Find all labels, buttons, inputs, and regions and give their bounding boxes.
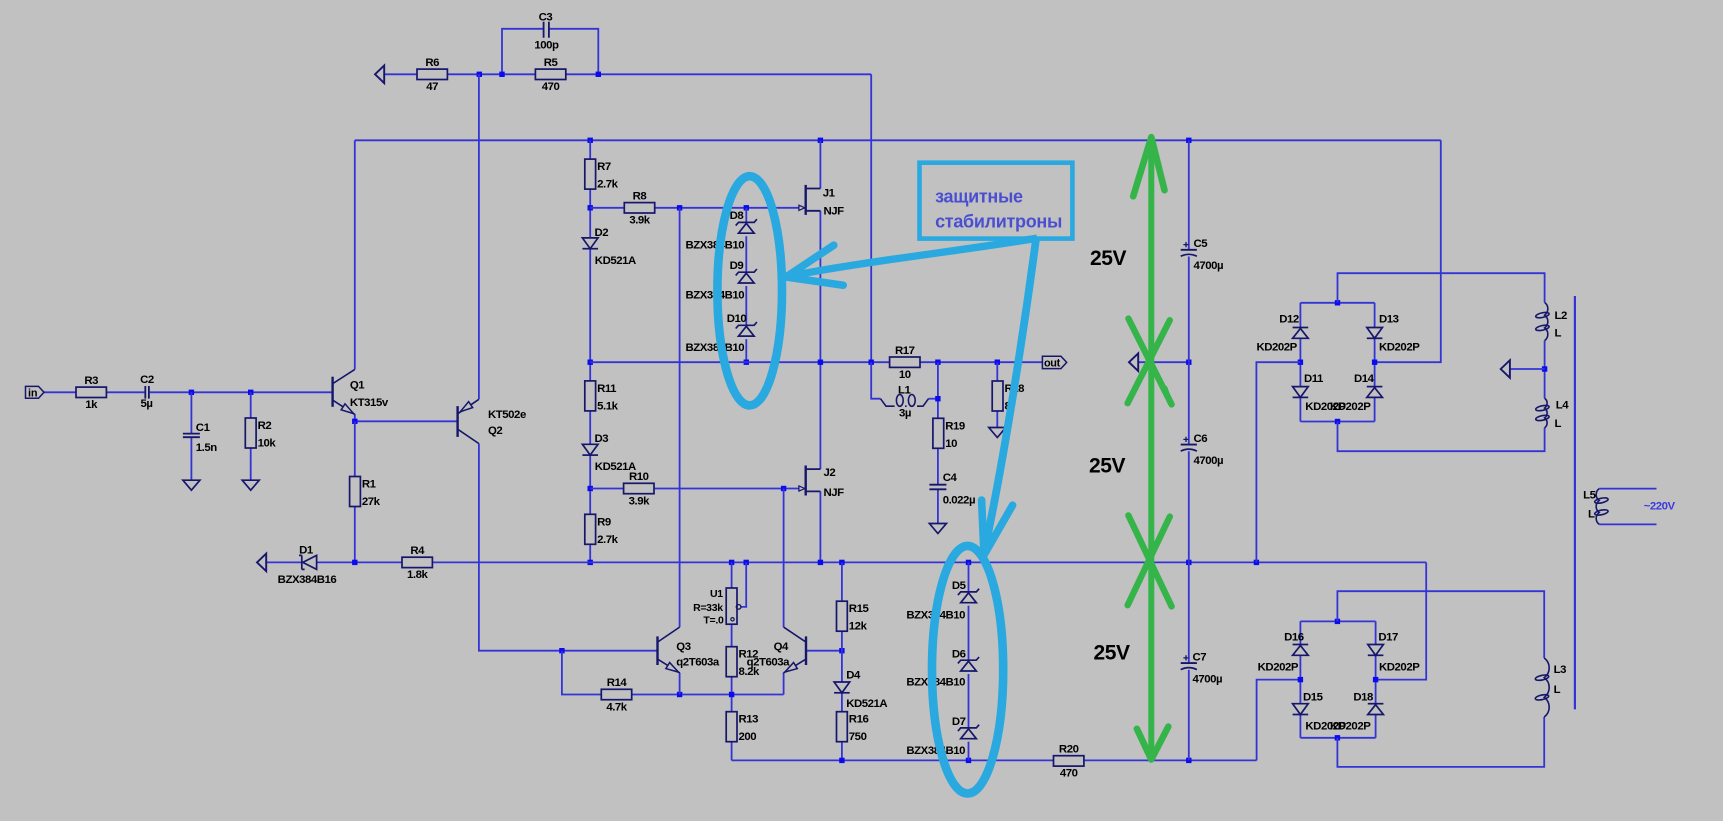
wire R13 column: [731, 695, 733, 712]
svg-text:5.1k: 5.1k: [597, 400, 618, 412]
resistor R3: [76, 375, 106, 411]
junction emitter rail R12: [729, 692, 734, 697]
junction bridge1 bottom: [1335, 419, 1340, 424]
wire bridge2 bottom: [1300, 737, 1375, 739]
svg-text:R9: R9: [597, 516, 611, 528]
wire U1 wiper: [741, 562, 746, 607]
junction bottom rail C7: [1186, 758, 1191, 763]
junction D10 bottom out rail: [744, 360, 749, 365]
junction Q4 base R15: [839, 648, 844, 653]
wire Q3 collector column: [679, 208, 681, 627]
transistor Q1 KT315v: [333, 369, 389, 414]
wire R7 column top: [589, 140, 591, 159]
wire bridge2 top to L3: [1337, 591, 1544, 658]
zener D7 BZX384B10: [906, 716, 979, 757]
svg-text:470: 470: [1060, 768, 1078, 780]
wire bottom rail: [732, 759, 1054, 761]
svg-text:1.8k: 1.8k: [407, 569, 428, 581]
svg-text:1k: 1k: [85, 399, 98, 411]
diode D16 KD202P: [1258, 632, 1309, 674]
cyan ellipse around D5-D7: [932, 546, 1003, 794]
resistor R14: [601, 677, 631, 713]
junction R7/R8/D2 node: [588, 205, 593, 210]
svg-text:KD202P: KD202P: [1379, 342, 1420, 354]
diode D15 KD202P: [1293, 692, 1347, 733]
svg-text:R3: R3: [84, 375, 98, 387]
wire D1 to R4: [317, 561, 402, 563]
resistor R10: [624, 471, 654, 507]
capacitor C1: [183, 422, 217, 454]
svg-text:in: in: [28, 388, 37, 400]
zener D8 BZX384B10: [686, 210, 757, 251]
zener D6 BZX384B10: [906, 648, 979, 688]
svg-text:R4: R4: [410, 545, 425, 557]
junction mid rail D5: [966, 560, 971, 565]
junction C3 left: [499, 72, 504, 77]
wire L2 bottom to center tap: [1544, 341, 1546, 399]
svg-text:R15: R15: [849, 603, 870, 615]
svg-text:D5: D5: [952, 580, 967, 592]
wire R16 to bottom rail: [841, 742, 843, 760]
wire R3 to C2: [106, 391, 144, 393]
junction bottom rail D7: [966, 758, 971, 763]
junction C1 node: [189, 390, 194, 395]
wire bridge1 right branch: [1374, 303, 1376, 328]
svg-text:R11: R11: [597, 383, 617, 395]
svg-text:R1: R1: [362, 479, 377, 491]
svg-text:C6: C6: [1194, 433, 1208, 445]
port in: [26, 386, 45, 399]
JFET J2 NJF: [799, 466, 844, 499]
ground C4: [929, 524, 946, 534]
svg-text:R16: R16: [849, 714, 869, 726]
junction Q1 emitter: [352, 419, 357, 424]
junction R2 node: [248, 390, 253, 395]
svg-text:L: L: [1554, 684, 1561, 696]
wire R8 net to J1 gate: [590, 207, 624, 209]
svg-text:R17: R17: [895, 345, 915, 357]
wire tap arrow stub: [1510, 368, 1545, 370]
wire R19 column: [937, 362, 939, 418]
wire out rail right of port: [1138, 361, 1189, 363]
wire R5 to output column: [566, 73, 871, 75]
junction out rail J1 source: [818, 360, 823, 365]
svg-text:C4: C4: [943, 472, 958, 484]
junction mid rail C6/C7: [1186, 560, 1191, 565]
svg-text:C2: C2: [140, 374, 154, 386]
wire C6 to mid rail: [1188, 451, 1190, 562]
ground R2: [242, 480, 259, 490]
diode D18 KD202P: [1330, 692, 1383, 733]
svg-text:10k: 10k: [258, 438, 277, 450]
svg-text:D11: D11: [1304, 373, 1324, 385]
cyan arrow to lower zeners: [982, 239, 1036, 555]
svg-text:L: L: [1555, 418, 1562, 430]
wire mid rail right end to bridge2: [1376, 562, 1427, 679]
wire emitter rail: [632, 694, 784, 696]
wire Q4 emitter drop: [783, 673, 785, 695]
svg-text:Q4: Q4: [774, 641, 789, 653]
svg-text:L4: L4: [1556, 400, 1570, 412]
svg-text:200: 200: [739, 731, 757, 743]
svg-text:KD202P: KD202P: [1258, 662, 1299, 674]
resistor R2: [245, 418, 276, 450]
ground R18: [989, 428, 1006, 438]
svg-text:D6: D6: [952, 648, 966, 660]
wire J1 drain vertical: [819, 140, 821, 188]
wire R11 to D3: [589, 411, 591, 444]
capacitor C4: [929, 472, 975, 507]
svg-text:D12: D12: [1279, 313, 1299, 325]
net marker arrow transformer tap: [1501, 360, 1510, 378]
diode D13 KD202P: [1367, 313, 1420, 353]
svg-text:L3: L3: [1554, 664, 1567, 676]
wire bridge2 bottom to L3 return: [1337, 717, 1544, 767]
svg-text:10: 10: [945, 438, 957, 450]
wire zener column D5-D7: [968, 562, 970, 592]
svg-text:D8: D8: [730, 210, 744, 222]
svg-text:750: 750: [849, 731, 867, 743]
svg-text:out: out: [1044, 358, 1061, 370]
wire out rail to R11: [589, 362, 591, 381]
svg-text:D16: D16: [1284, 632, 1304, 644]
capacitor C2: [140, 374, 154, 410]
wire Q2 collector to Q3 base: [479, 444, 658, 651]
junction out rail feedback/R17: [869, 360, 874, 365]
wire L1 left drop: [871, 362, 880, 399]
wire Q1 emitter to Q2 base: [354, 414, 356, 421]
wire C3 branch: [502, 29, 544, 75]
wire D4 to R16: [841, 693, 843, 712]
svg-text:C3: C3: [539, 12, 553, 24]
wire J1 source / J2 drain vertical: [819, 211, 821, 469]
resistor R20: [1054, 744, 1084, 780]
wire U1 to R12: [731, 624, 733, 647]
junction top rail J1 drain: [818, 138, 823, 143]
junction R8/Q3-collector column: [677, 205, 682, 210]
junction mid rail R15: [839, 560, 844, 565]
svg-text:R2: R2: [258, 420, 272, 432]
wire D2 to out rail: [589, 249, 591, 363]
junction top rail C5: [1186, 138, 1191, 143]
junction R18 top: [995, 360, 1000, 365]
wire C column C5 top: [1188, 140, 1190, 250]
wire bridge1 top to L2: [1338, 273, 1545, 303]
svg-text:R6: R6: [425, 57, 439, 69]
capacitor C5 4700u: [1181, 238, 1223, 272]
wire C4 to ground: [937, 490, 939, 524]
wire bridge1 left branch: [1299, 303, 1301, 328]
wire bottom rail to bridge2 left: [1257, 680, 1301, 761]
wire out rail: [590, 361, 1042, 363]
wire bridge1 left mid to mid rail: [1256, 362, 1300, 562]
wire bridge1 top: [1300, 302, 1374, 304]
svg-text:KT502e: KT502e: [488, 409, 526, 421]
inductor L5 primary: [1583, 489, 1608, 525]
transistor Q3 q2T603a: [658, 627, 720, 673]
svg-text:~220V: ~220V: [1644, 501, 1676, 513]
junction bridge2 top: [1335, 619, 1340, 624]
wire L5 primary bottom lead: [1599, 523, 1656, 525]
wire R19 to C4: [937, 448, 939, 484]
wire C1 stub: [190, 392, 192, 433]
wire R10 net to J2 gate: [590, 488, 624, 490]
svg-text:C1: C1: [196, 422, 211, 434]
svg-text:BZX384B10: BZX384B10: [686, 239, 745, 251]
resistor R19: [933, 418, 965, 450]
svg-text:27k: 27k: [362, 496, 381, 508]
svg-text:4700µ: 4700µ: [1194, 455, 1224, 467]
wire U1 top stub: [731, 562, 733, 588]
resistor R4: [402, 545, 432, 581]
green X mark upper: [1128, 319, 1172, 405]
wire mid rail to C7: [1188, 562, 1190, 663]
resistor R15: [837, 601, 870, 633]
svg-text:D17: D17: [1378, 632, 1398, 644]
svg-text:Q1: Q1: [350, 379, 365, 391]
svg-text:D15: D15: [1303, 692, 1324, 704]
transformer core line: [1574, 296, 1576, 709]
net marker arrow on out rail: [1129, 353, 1138, 371]
potentiometer U1: [693, 588, 741, 626]
zener D5 BZX384B10: [906, 580, 979, 621]
svg-text:D18: D18: [1353, 692, 1373, 704]
svg-text:R13: R13: [739, 714, 759, 726]
svg-text:D9: D9: [730, 260, 744, 272]
svg-text:D2: D2: [595, 227, 609, 239]
svg-text:25V: 25V: [1090, 247, 1127, 270]
net marker arrow left (feedback): [375, 66, 384, 84]
svg-text:U1: U1: [710, 588, 723, 600]
svg-text:4700µ: 4700µ: [1194, 260, 1224, 272]
svg-text:470: 470: [542, 81, 560, 93]
wire Q1 collector to top rail: [354, 140, 356, 369]
svg-text:KT315v: KT315v: [350, 397, 389, 409]
svg-text:R14: R14: [607, 677, 628, 689]
capacitor C6 4700u: [1181, 433, 1223, 467]
svg-text:C5: C5: [1194, 238, 1209, 250]
wire feedback net top: [384, 73, 417, 75]
wire D3 to R10 node: [589, 455, 591, 514]
svg-text:10: 10: [899, 369, 911, 381]
svg-text:KD521A: KD521A: [595, 255, 636, 267]
diode D11 KD202P: [1293, 373, 1347, 413]
svg-text:12k: 12k: [849, 621, 868, 633]
junction mid rail J2 source: [818, 560, 823, 565]
inductor L3: [1535, 658, 1566, 717]
wire R12 to emitter rail: [731, 677, 733, 694]
wire R9 bottom to mid rail: [589, 544, 591, 562]
resistor R8: [624, 190, 654, 226]
junction mid rail bridge1 return: [1254, 560, 1259, 565]
wire Q2 emitter to feedback node: [478, 74, 480, 399]
wire input port to R3: [44, 391, 76, 393]
wire right end of top rail down to bridge1: [1375, 140, 1441, 362]
svg-text:25V: 25V: [1094, 642, 1131, 665]
inductor L1: [881, 384, 929, 419]
wire R2 stub: [250, 392, 252, 418]
junction mid rail wiper: [744, 560, 749, 565]
wire top supply rail: [355, 139, 1441, 141]
wire C2 to Q1 base: [150, 391, 333, 393]
wire R15 column top: [841, 562, 843, 601]
diode D14 KD202P: [1330, 373, 1382, 413]
junction R10/J2 gate/Q4 collector: [781, 486, 786, 491]
junction out rail C5/C6: [1186, 360, 1191, 365]
diode D4 KD521A: [834, 670, 887, 711]
svg-text:100p: 100p: [534, 40, 559, 52]
svg-text:Q3: Q3: [676, 641, 690, 653]
wire R18 top stub: [996, 362, 998, 381]
svg-text:KD202P: KD202P: [1256, 342, 1297, 354]
cyan arrow to upper zeners: [786, 238, 1037, 285]
port out: [1042, 356, 1066, 369]
svg-text:L2: L2: [1555, 310, 1568, 322]
junction mid rail R1: [352, 560, 357, 565]
svg-text:4.7k: 4.7k: [606, 701, 627, 713]
svg-text:3µ: 3µ: [899, 407, 911, 419]
resistor R11: [585, 381, 619, 413]
wire C7 to bottom rail: [1188, 670, 1190, 761]
inductor L2: [1535, 302, 1567, 340]
wire L5 primary top lead: [1599, 488, 1656, 490]
wire zener column D8-D10: [745, 208, 747, 223]
svg-text:47: 47: [426, 81, 438, 93]
junction transformer tap upper: [1542, 366, 1547, 371]
svg-text:2.7k: 2.7k: [597, 179, 618, 191]
wire R1 column: [354, 421, 356, 476]
resistor R12: [726, 647, 760, 679]
green measurement arrow vertical: [1133, 137, 1168, 759]
wire R15 to D4: [841, 631, 843, 682]
cyan ellipse around D8-D10: [717, 176, 782, 405]
junction bridge1 left mid: [1298, 360, 1303, 365]
svg-text:D13: D13: [1379, 313, 1399, 325]
junction bridge2 right mid: [1373, 677, 1378, 682]
svg-text:C7: C7: [1193, 651, 1207, 663]
svg-text:R20: R20: [1059, 744, 1079, 756]
wire bridge2 right branch: [1375, 621, 1377, 644]
wire R18 bottom stub: [996, 411, 998, 428]
svg-text:KD202P: KD202P: [1330, 401, 1371, 413]
svg-text:1.5n: 1.5n: [196, 442, 217, 454]
wire out rail to C6: [1188, 362, 1190, 444]
junction bridge2 left mid: [1298, 677, 1303, 682]
inductor L4: [1535, 398, 1569, 430]
resistor R13: [726, 712, 758, 744]
junction R8/D8 top: [744, 205, 749, 210]
svg-text:NJF: NJF: [824, 487, 845, 499]
junction top rail R7: [588, 138, 593, 143]
diode D12 KD202P: [1256, 313, 1308, 353]
svg-text:R10: R10: [629, 471, 649, 483]
svg-text:защитные: защитные: [935, 187, 1023, 207]
junction Q3 base/R14: [559, 648, 564, 653]
junction bridge1 right mid: [1372, 360, 1377, 365]
wire feedback vertical to out node: [870, 74, 872, 362]
svg-text:q2T603a: q2T603a: [747, 656, 791, 668]
cyan callout box: [920, 163, 1073, 239]
junction bridge2 bottom: [1335, 735, 1340, 740]
resistor R1: [350, 477, 381, 509]
wire C5 to out rail: [1188, 257, 1190, 363]
svg-text:BZX384B16: BZX384B16: [278, 574, 337, 586]
capacitor C3: [534, 12, 559, 52]
svg-text:3.9k: 3.9k: [629, 495, 650, 507]
svg-text:R=33k: R=33k: [693, 602, 723, 614]
junction R17/L1 right: [935, 360, 940, 365]
junction L1 right: [935, 396, 940, 401]
wire Q4 base to R15 column: [806, 650, 842, 652]
svg-text:2.7k: 2.7k: [597, 534, 618, 546]
svg-text:Q2: Q2: [488, 425, 502, 437]
wire D1 net left: [266, 561, 302, 563]
wire mid rail: [432, 561, 1426, 563]
transistor Q4 q2T603a: [747, 627, 806, 673]
svg-text:L: L: [1555, 328, 1562, 340]
ground C1: [183, 480, 200, 490]
svg-text:J2: J2: [824, 467, 836, 479]
junction bridge1 top: [1335, 300, 1340, 305]
wire L1 right to R19 column: [929, 398, 938, 400]
zener D10 BZX384B10: [686, 313, 757, 354]
svg-text:D3: D3: [595, 433, 609, 445]
svg-text:5µ: 5µ: [141, 398, 153, 410]
svg-text:L5: L5: [1583, 489, 1597, 501]
wire R6 to R5: [447, 73, 535, 75]
transistor Q2 KT502e: [458, 399, 526, 443]
wire J2 source vertical: [819, 491, 821, 562]
svg-text:L1: L1: [898, 384, 912, 396]
svg-text:R5: R5: [544, 57, 559, 69]
junction D3/R10/R9 node: [588, 486, 593, 491]
svg-text:стабилитроны: стабилитроны: [935, 211, 1062, 231]
JFET J1 NJF: [799, 185, 844, 218]
svg-text:R19: R19: [945, 420, 965, 432]
svg-text:0.022µ: 0.022µ: [943, 494, 975, 506]
svg-text:R8: R8: [633, 190, 647, 202]
svg-text:L: L: [1588, 509, 1595, 521]
svg-text:KD202P: KD202P: [1330, 721, 1371, 733]
wire Q3 emitter drop: [679, 673, 681, 695]
wire bridge1 bottom to L4: [1338, 422, 1545, 452]
capacitor C7 4700u: [1181, 651, 1222, 685]
svg-text:T=.0: T=.0: [703, 614, 724, 626]
resistor R7: [585, 159, 619, 191]
junction R9 mid rail: [588, 560, 593, 565]
svg-text:BZX384B10: BZX384B10: [686, 342, 745, 354]
junction emitter rail Q3: [677, 692, 682, 697]
resistor R18: [992, 381, 1024, 413]
net marker arrow left (D1): [257, 554, 266, 572]
zener D9 BZX384B10: [686, 260, 757, 302]
diode D3 KD521A: [582, 433, 636, 473]
diode D1 BZX384B16: [278, 544, 337, 586]
resistor R6: [417, 57, 447, 93]
svg-text:R7: R7: [597, 161, 611, 173]
resistor R5: [535, 57, 565, 93]
wire emitter rail R14 left leg: [562, 651, 601, 695]
wire bridge2 top: [1300, 620, 1375, 622]
svg-text:D14: D14: [1354, 373, 1375, 385]
diode D17 KD202P: [1368, 632, 1420, 674]
wire J2 gate to Q4 collector column: [783, 489, 785, 628]
svg-text:q2T603a: q2T603a: [676, 656, 720, 668]
junction C3 right / R5 out: [596, 72, 601, 77]
junction x590 out rail: [588, 360, 593, 365]
svg-text:D4: D4: [846, 670, 861, 682]
resistor R9: [585, 514, 619, 546]
